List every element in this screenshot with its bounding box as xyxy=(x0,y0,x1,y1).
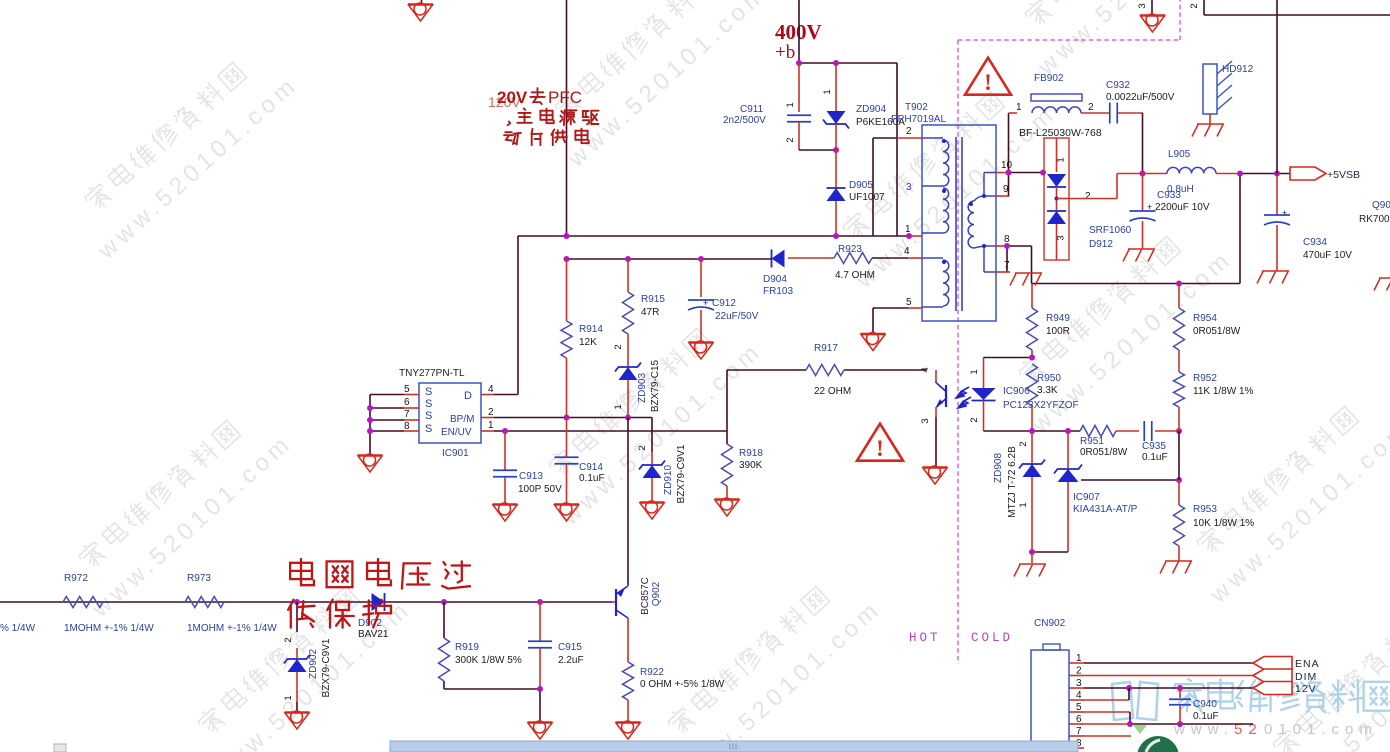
wire xyxy=(1084,675,1254,677)
ground xyxy=(1140,14,1165,32)
svg-text:+: + xyxy=(1147,202,1152,212)
ground xyxy=(1192,124,1224,137)
svg-text:10K 1/8W 1%: 10K 1/8W 1% xyxy=(1193,518,1254,529)
pin 2 xyxy=(1069,666,1084,677)
junction xyxy=(796,60,839,66)
ground xyxy=(358,454,383,472)
svg-text:R954: R954 xyxy=(1193,313,1217,324)
wire xyxy=(727,370,926,444)
svg-text:ZD904: ZD904 xyxy=(856,104,886,115)
wire xyxy=(0,601,612,603)
diode D902 xyxy=(358,593,389,640)
svg-text:D912: D912 xyxy=(1089,239,1113,250)
svg-text:12K: 12K xyxy=(579,337,597,348)
svg-text:11K 1/8W 1%: 11K 1/8W 1% xyxy=(1193,386,1254,397)
svg-text:FR103: FR103 xyxy=(763,286,793,297)
svg-text:2: 2 xyxy=(637,445,648,450)
svg-text:+: + xyxy=(1282,208,1287,218)
svg-text:5: 5 xyxy=(1076,702,1082,713)
svg-text:7: 7 xyxy=(404,409,410,420)
svg-text:2: 2 xyxy=(1088,102,1094,113)
svg-text:0R051/8W: 0R051/8W xyxy=(1193,326,1241,337)
junction xyxy=(294,599,543,605)
svg-text:C914: C914 xyxy=(579,462,603,473)
svg-text:PC123X2YFZOF: PC123X2YFZOF xyxy=(1003,400,1079,411)
junction xyxy=(1029,355,1035,361)
wire xyxy=(996,246,1240,284)
wire xyxy=(628,418,652,586)
wire xyxy=(799,0,897,63)
svg-text:R949: R949 xyxy=(1046,313,1070,324)
svg-text:2: 2 xyxy=(969,417,980,422)
svg-text:DIM: DIM xyxy=(1295,671,1317,683)
svg-text:T902: T902 xyxy=(905,102,928,113)
svg-text:ZD903: ZD903 xyxy=(637,373,648,403)
junction xyxy=(537,686,543,692)
zener ZD904 xyxy=(822,63,905,150)
diode D904 xyxy=(763,250,793,298)
svg-text:2n2/500V: 2n2/500V xyxy=(723,115,766,126)
net isolation dashed line HOT/COLD xyxy=(958,0,1180,664)
svg-text:1: 1 xyxy=(905,224,911,235)
decor xyxy=(1133,725,1179,752)
junction xyxy=(1029,428,1182,434)
svg-text:R915: R915 xyxy=(641,294,665,305)
ground xyxy=(861,333,886,351)
svg-text:KIA431A-AT/P: KIA431A-AT/P xyxy=(1073,504,1138,515)
resistor R951 xyxy=(1080,426,1139,459)
svg-text:1: 1 xyxy=(1018,502,1029,507)
ground xyxy=(1010,273,1042,286)
svg-text:ZD908: ZD908 xyxy=(993,453,1004,483)
dual diode D912 SRF1060 xyxy=(1044,138,1132,260)
ground xyxy=(640,501,665,519)
resistor R953 xyxy=(1174,480,1255,561)
svg-text:2: 2 xyxy=(613,344,624,349)
junction xyxy=(1237,171,1280,177)
svg-text:IC907: IC907 xyxy=(1073,492,1100,503)
zener ZD903 xyxy=(613,344,661,417)
svg-text:C912: C912 xyxy=(712,298,736,309)
pin 5 xyxy=(404,384,419,395)
svg-text:100P 50V: 100P 50V xyxy=(518,484,562,495)
pin 4 xyxy=(481,384,494,395)
junction xyxy=(1127,721,1183,727)
svg-text:1: 1 xyxy=(1016,102,1022,113)
port ENA xyxy=(1253,657,1320,671)
capacitor C914 xyxy=(555,418,605,505)
svg-text:22 OHM: 22 OHM xyxy=(814,386,851,397)
resistor R919 xyxy=(439,602,541,689)
svg-text:0R051/8W: 0R051/8W xyxy=(1080,447,1128,458)
svg-text:R923: R923 xyxy=(838,244,862,255)
pin 8 xyxy=(1069,738,1084,749)
svg-text:C932: C932 xyxy=(1106,80,1130,91)
svg-text:BAV21: BAV21 xyxy=(358,629,389,640)
wire xyxy=(494,417,652,419)
wire xyxy=(1216,174,1290,284)
svg-text:S: S xyxy=(425,423,432,435)
ground xyxy=(1160,561,1192,574)
pin 6 xyxy=(404,397,419,408)
svg-text:2200uF 10V: 2200uF 10V xyxy=(1155,202,1210,213)
svg-text:R918: R918 xyxy=(739,448,763,459)
junction xyxy=(502,428,508,434)
ground xyxy=(689,341,714,359)
svg-text:3: 3 xyxy=(920,418,931,423)
warning symbol xyxy=(965,58,1011,95)
svg-text:0.1uF: 0.1uF xyxy=(1193,711,1219,722)
diode D905 xyxy=(827,150,886,236)
ground xyxy=(1257,271,1289,284)
svg-text:0 OHM +-5% 1/8W: 0 OHM +-5% 1/8W xyxy=(640,679,725,690)
svg-text:1: 1 xyxy=(822,89,833,94)
resistor R914 xyxy=(561,259,603,417)
svg-text:4: 4 xyxy=(920,367,931,372)
svg-text:D905: D905 xyxy=(849,180,873,191)
svg-text:7: 7 xyxy=(1076,726,1082,737)
pin 1 xyxy=(1069,653,1084,664)
wire xyxy=(494,430,727,432)
wire xyxy=(1142,113,1144,174)
svg-text:2: 2 xyxy=(1085,191,1091,202)
junction xyxy=(564,415,632,421)
svg-text:3: 3 xyxy=(906,182,912,193)
svg-text:R922: R922 xyxy=(640,667,664,678)
svg-text:8: 8 xyxy=(404,421,410,432)
svg-text:0.8uH: 0.8uH xyxy=(1167,184,1194,195)
wire xyxy=(1084,662,1254,664)
svg-text:R950: R950 xyxy=(1037,373,1061,384)
optocoupler IC906 PC123X2YFZOF xyxy=(920,358,1079,468)
resistor R973 xyxy=(185,573,277,634)
svg-text:!: ! xyxy=(984,70,992,95)
svg-text:BC857C: BC857C xyxy=(640,577,651,615)
svg-text:R914: R914 xyxy=(579,324,603,335)
svg-text:1: 1 xyxy=(969,369,980,374)
pin 5 xyxy=(1069,702,1084,713)
decor xyxy=(82,61,247,213)
svg-text:ZD910: ZD910 xyxy=(663,465,674,495)
svg-text:S: S xyxy=(425,410,432,422)
svg-text:6: 6 xyxy=(404,397,410,408)
decor xyxy=(54,741,1078,752)
junction xyxy=(564,233,913,239)
svg-text:SRF1060: SRF1060 xyxy=(1089,225,1132,236)
wire xyxy=(494,236,518,395)
svg-text:C940: C940 xyxy=(1193,699,1217,710)
pin 2 xyxy=(481,407,494,418)
junction xyxy=(833,147,839,153)
svg-text:0.0022uF/500V: 0.0022uF/500V xyxy=(1106,92,1175,103)
svg-text:22uF/50V: 22uF/50V xyxy=(715,311,759,322)
wire xyxy=(566,0,568,236)
svg-text:1: 1 xyxy=(613,404,624,409)
svg-text:R919: R919 xyxy=(455,642,479,653)
junction xyxy=(1126,685,1183,691)
svg-text:UF1007: UF1007 xyxy=(849,192,885,203)
svg-text:3.3K: 3.3K xyxy=(1037,385,1058,396)
junction xyxy=(564,256,705,262)
transformer T902 PPH7019AL xyxy=(891,102,996,321)
svg-text:RK700: RK700 xyxy=(1359,214,1390,225)
svg-text:+: + xyxy=(703,298,708,308)
pin 4 xyxy=(1069,690,1084,701)
junction xyxy=(367,405,373,434)
port DIM xyxy=(1253,669,1317,683)
annotation 20V to PFC text xyxy=(488,94,521,110)
svg-text:IC901: IC901 xyxy=(442,448,469,459)
resistor R915 xyxy=(623,259,666,366)
svg-text:MTZJ T-72 6.2B: MTZJ T-72 6.2B xyxy=(1007,446,1018,518)
ferrite bead FB902 xyxy=(1031,73,1082,113)
svg-text:% 1/4W: % 1/4W xyxy=(0,623,36,634)
svg-text:470uF 10V: 470uF 10V xyxy=(1303,250,1352,261)
capacitor C915 xyxy=(528,602,584,722)
wire xyxy=(518,63,922,236)
svg-text:+b: +b xyxy=(775,42,795,63)
port 12V xyxy=(1253,682,1317,696)
pin 4 xyxy=(904,246,922,258)
pin 8 xyxy=(404,421,419,432)
svg-text:3: 3 xyxy=(1076,678,1082,689)
svg-text:S: S xyxy=(425,398,432,410)
resistor R917 xyxy=(806,343,851,397)
ground xyxy=(554,503,579,521)
svg-text:D902: D902 xyxy=(358,618,382,629)
svg-text:4: 4 xyxy=(904,246,910,257)
svg-text:390K: 390K xyxy=(739,460,763,471)
svg-text:D: D xyxy=(464,390,472,402)
svg-text:PPH7019AL: PPH7019AL xyxy=(891,114,946,125)
capacitor C940 xyxy=(1169,688,1219,724)
svg-text:2: 2 xyxy=(1018,441,1029,446)
svg-text:100R: 100R xyxy=(1046,326,1070,337)
svg-text:C913: C913 xyxy=(519,471,543,482)
svg-text:BZX79-C9V1: BZX79-C9V1 xyxy=(321,638,332,697)
pin 7 xyxy=(404,409,419,420)
svg-text:HOT: HOT xyxy=(909,631,941,645)
svg-text:0.1uF: 0.1uF xyxy=(579,473,605,484)
svg-text:4: 4 xyxy=(1076,690,1082,701)
svg-text:Q902: Q902 xyxy=(651,581,662,606)
svg-text:COLD: COLD xyxy=(971,631,1013,645)
svg-text:C911: C911 xyxy=(740,104,764,115)
wire xyxy=(567,258,772,260)
svg-text:HD912: HD912 xyxy=(1222,64,1254,75)
resistor R923 xyxy=(788,244,908,281)
zener ZD902 xyxy=(283,602,332,712)
svg-text:5: 5 xyxy=(906,297,912,308)
ground xyxy=(715,498,740,516)
svg-text:C915: C915 xyxy=(558,642,582,653)
transistor Q905 label xyxy=(1359,200,1390,225)
svg-text:9: 9 xyxy=(1003,184,1009,195)
svg-text:4: 4 xyxy=(488,384,494,395)
zener ZD908 xyxy=(993,431,1045,552)
shunt regulator IC907 KIA431A xyxy=(1032,431,1179,552)
svg-text:2: 2 xyxy=(283,637,294,642)
wire xyxy=(370,395,404,456)
svg-text:1: 1 xyxy=(785,102,796,107)
svg-text:ZD902: ZD902 xyxy=(308,649,319,679)
svg-text:CN902: CN902 xyxy=(1034,618,1066,629)
ground xyxy=(616,721,641,739)
resistor R952 xyxy=(1174,372,1254,431)
wire xyxy=(1084,687,1254,689)
pin 3 xyxy=(906,182,912,193)
inductor L905 xyxy=(1167,149,1216,195)
ground xyxy=(493,503,518,521)
wire xyxy=(1069,174,1142,199)
svg-text:L905: L905 xyxy=(1168,149,1191,160)
ground xyxy=(923,466,948,484)
svg-text:TNY277PN-TL: TNY277PN-TL xyxy=(399,368,465,379)
svg-text:BF-L25030W-768: BF-L25030W-768 xyxy=(1019,127,1102,139)
svg-text:BP/M: BP/M xyxy=(450,414,474,425)
svg-text:+5VSB: +5VSB xyxy=(1327,169,1360,181)
svg-text:300K 1/8W 5%: 300K 1/8W 5% xyxy=(455,655,522,666)
svg-text:1MOHM +-1% 1/4W: 1MOHM +-1% 1/4W xyxy=(64,623,154,634)
pin 1 xyxy=(481,420,494,431)
pin 5 xyxy=(873,297,922,333)
svg-text:2.2uF: 2.2uF xyxy=(558,655,584,666)
svg-text:3: 3 xyxy=(1056,235,1067,240)
svg-text:1MOHM +-1% 1/4W: 1MOHM +-1% 1/4W xyxy=(187,623,277,634)
ground xyxy=(528,721,553,739)
svg-text:6: 6 xyxy=(1076,714,1082,725)
ground xyxy=(1374,278,1390,291)
resistor R949 xyxy=(1027,284,1071,358)
warning symbol xyxy=(857,424,903,461)
svg-text:1: 1 xyxy=(488,420,494,431)
capacitor C933 xyxy=(1130,174,1210,250)
svg-text:R952: R952 xyxy=(1193,373,1217,384)
svg-text:EN/UV: EN/UV xyxy=(441,427,472,438)
svg-text:3: 3 xyxy=(1137,3,1148,8)
svg-text:4.7 OHM: 4.7 OHM xyxy=(835,270,875,281)
svg-text:0101.com: 0101.com xyxy=(1264,721,1378,738)
svg-text:12V: 12V xyxy=(1295,683,1317,695)
svg-text:!: ! xyxy=(876,436,884,461)
ground xyxy=(1014,552,1046,577)
pin 3 xyxy=(1069,678,1084,689)
svg-text:2: 2 xyxy=(1189,3,1200,8)
junction xyxy=(1029,477,1182,555)
wire xyxy=(1143,173,1168,175)
svg-text:PFC: PFC xyxy=(548,88,582,107)
capacitor C913 xyxy=(493,431,562,504)
svg-text:D904: D904 xyxy=(763,274,787,285)
transistor Q902 BC857C xyxy=(612,577,662,662)
capacitor C935 xyxy=(1142,421,1179,463)
svg-text:7: 7 xyxy=(1004,260,1010,271)
heatsink HD912 xyxy=(1203,61,1254,124)
resistor R950 xyxy=(1027,364,1062,431)
svg-text:0.1uF: 0.1uF xyxy=(1142,452,1168,463)
svg-text:R953: R953 xyxy=(1193,504,1217,515)
node 400V +b label xyxy=(775,20,822,63)
svg-text:2: 2 xyxy=(1076,666,1082,677)
resistor R918 xyxy=(722,444,764,499)
zener ZD910 xyxy=(637,444,687,503)
svg-text:BZX79-C15: BZX79-C15 xyxy=(650,359,661,412)
svg-text:10: 10 xyxy=(1001,160,1013,171)
svg-text:S: S xyxy=(425,386,432,398)
wire xyxy=(799,149,836,151)
capacitor C932 xyxy=(1081,80,1175,124)
svg-text:2: 2 xyxy=(488,407,494,418)
wire xyxy=(1178,431,1180,480)
junction xyxy=(1004,243,1182,287)
svg-text:47R: 47R xyxy=(641,307,659,318)
wire xyxy=(421,0,423,4)
port +5VSB xyxy=(1290,167,1360,181)
svg-text:BZX79-C9V1: BZX79-C9V1 xyxy=(676,444,687,503)
capacitor C934 xyxy=(1264,174,1352,272)
wire xyxy=(984,358,1081,432)
svg-text:1: 1 xyxy=(283,695,294,700)
svg-text:R973: R973 xyxy=(187,573,211,584)
svg-text:FB902: FB902 xyxy=(1034,73,1064,84)
capacitor C911 xyxy=(723,63,811,150)
wire xyxy=(1151,0,1153,15)
annotation mains undervoltage protection text xyxy=(288,559,470,628)
svg-text:C934: C934 xyxy=(1303,237,1327,248)
svg-text:R917: R917 xyxy=(814,343,838,354)
pin 6 xyxy=(1069,714,1084,725)
ground xyxy=(408,3,433,21)
svg-text:2: 2 xyxy=(785,137,796,142)
svg-text:1: 1 xyxy=(1056,157,1067,162)
pin 7 xyxy=(996,260,1010,272)
connector CN902 xyxy=(1031,618,1069,752)
ground xyxy=(1123,249,1155,262)
svg-text:2: 2 xyxy=(906,126,912,137)
svg-text:20V: 20V xyxy=(497,88,528,107)
resistor R954 xyxy=(1174,284,1241,373)
svg-text:Q90: Q90 xyxy=(1372,200,1390,211)
junction xyxy=(1140,171,1146,177)
svg-text:IC906: IC906 xyxy=(1003,386,1030,397)
wire xyxy=(1084,688,1253,736)
resistor R972 xyxy=(0,573,154,634)
svg-text:1: 1 xyxy=(1076,653,1082,664)
capacitor C912 xyxy=(688,259,759,342)
svg-text:ENA: ENA xyxy=(1295,658,1320,670)
svg-text:R951: R951 xyxy=(1080,436,1104,447)
svg-text:5: 5 xyxy=(404,384,410,395)
wire xyxy=(996,113,1044,196)
wire xyxy=(1204,0,1390,174)
svg-text:C935: C935 xyxy=(1142,441,1166,452)
IC IC901 TNY277PN-TL xyxy=(399,368,481,459)
junction xyxy=(1006,170,1047,176)
pin 7 xyxy=(1069,726,1084,737)
ground xyxy=(285,711,310,729)
resistor R922 xyxy=(623,662,725,722)
decor xyxy=(1112,679,1390,738)
svg-text:R972: R972 xyxy=(64,573,88,584)
